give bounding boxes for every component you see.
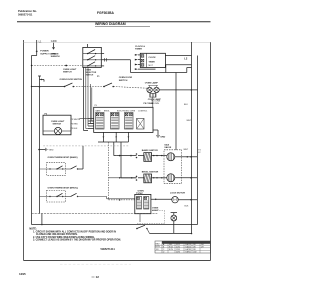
sheet border bottom — [24, 260, 211, 262]
svg-text:POWER: POWER — [40, 51, 49, 53]
clock terminal box — [140, 53, 165, 67]
feeder verticals from selector — [83, 67, 85, 130]
wires arrows to clock box — [138, 54, 140, 56]
svg-text:VALVE: VALVE — [164, 146, 172, 149]
grd tap — [38, 149, 40, 151]
svg-text:NOTE:: NOTE: — [29, 228, 37, 231]
revision table — [155, 241, 211, 253]
svg-text:SHEATH: SHEATH — [51, 55, 60, 58]
wire door line left — [32, 86, 65, 88]
svg-text:5995271411: 5995271411 — [101, 247, 116, 251]
svg-text:WHT: WHT — [184, 149, 189, 151]
svg-text:1. CIRCUIT SHOWN WITH ALL CONT: 1. CIRCUIT SHOWN WITH ALL CONTACTS IN OF… — [33, 231, 116, 234]
wire clock bottom link — [166, 64, 192, 66]
bottom stub 2 — [115, 132, 117, 142]
relay element 1 — [96, 113, 105, 130]
svg-text:OVEN THERMOSTAT (BAKE): OVEN THERMOSTAT (BAKE) — [48, 156, 78, 159]
paper edge shadow — [60, 263, 131, 265]
lamp base — [150, 93, 156, 97]
svg-text:OVEN THERMOSTAT (BROIL): OVEN THERMOSTAT (BROIL) — [48, 186, 79, 189]
svg-text:LOCK MOTOR: LOCK MOTOR — [170, 193, 185, 195]
svg-text:P9: P9 — [95, 105, 97, 107]
wire bake feed — [113, 142, 115, 156]
svg-text:BROIL IGNITOR: BROIL IGNITOR — [142, 172, 159, 174]
svg-text:GAS: GAS — [164, 143, 169, 146]
sheet border top — [24, 42, 211, 44]
svg-text:12: 12 — [96, 275, 100, 279]
svg-text:CLOSED AND UNLOCKED POSITION.: CLOSED AND UNLOCKED POSITION. — [36, 233, 78, 236]
svg-text:BAKE: BAKE — [96, 110, 102, 113]
switch rung 3 — [83, 62, 102, 67]
svg-text:P3 RED: P3 RED — [71, 123, 79, 125]
wire L1 to bus — [32, 55, 37, 57]
svg-text:EA456: EA456 — [186, 246, 191, 249]
svg-text:FGF303BA: FGF303BA — [97, 11, 114, 15]
wire lamp to L2 bus — [159, 89, 197, 91]
wire labels to control — [80, 117, 89, 119]
svg-text:EA789: EA789 — [186, 248, 191, 251]
P6 bus under control — [98, 141, 128, 143]
switch rung 2 — [83, 56, 102, 61]
wires inside light box — [43, 130, 54, 132]
svg-text:BLK: BLK — [185, 206, 189, 208]
chassis ground at control — [153, 129, 158, 131]
bottom bus — [32, 224, 198, 226]
svg-text:SWITCH: SWITCH — [119, 80, 128, 82]
relay element 2 — [111, 113, 120, 130]
svg-text:SWITCH: SWITCH — [85, 75, 93, 77]
L2 bus right — [191, 42, 193, 234]
wire rung3 to left bus (dashed) — [32, 65, 83, 67]
svg-text:BLK: BLK — [184, 104, 188, 106]
node L1 — [36, 40, 38, 56]
svg-text:2. USE 105°C RATED WIRE WHEN R: 2. USE 105°C RATED WIRE WHEN REPLACING W… — [33, 236, 95, 239]
svg-text:CONTROL: CONTROL — [138, 111, 147, 113]
left stub wires — [88, 118, 94, 120]
wire clock to L2 — [165, 54, 191, 56]
wire selector to clock — [101, 59, 130, 61]
svg-text:CLOCK: CLOCK — [149, 57, 157, 59]
svg-text:SWITCH: SWITCH — [63, 71, 72, 73]
oven light box — [43, 115, 71, 135]
svg-text:P3 BLK: P3 BLK — [71, 128, 78, 130]
svg-text:5995271411: 5995271411 — [18, 12, 33, 16]
oven door switch 1 — [64, 86, 66, 88]
svg-text:GRD: GRD — [160, 137, 165, 139]
wire broil feed — [120, 142, 122, 178]
svg-text:TIMER: TIMER — [149, 62, 156, 64]
wire dashed to lamp — [113, 87, 147, 89]
svg-text:1295: 1295 — [19, 272, 26, 276]
door lock switch — [136, 228, 138, 230]
broil circuit wire — [128, 177, 136, 179]
svg-text:WIRING DIAGRAM: WIRING DIAGRAM — [95, 22, 126, 26]
svg-text:BROIL: BROIL — [104, 111, 110, 113]
relay element 4 — [137, 118, 144, 129]
svg-text:GRD: GRD — [49, 150, 54, 152]
svg-text:SWITCH: SWITCH — [53, 124, 62, 126]
page number — [92, 276, 95, 278]
svg-text:EA123: EA123 — [186, 243, 191, 246]
svg-text:NO.: NO. — [156, 249, 160, 251]
svg-text:JLW: JLW — [193, 252, 197, 254]
sheet border right — [210, 42, 212, 261]
stub top — [87, 44, 89, 47]
bake circuit wire — [116, 155, 136, 157]
connector P4 arrows — [135, 54, 138, 56]
electronic oven control box — [94, 107, 153, 132]
oven selector switch box — [83, 47, 102, 67]
oven door switch 2 — [103, 86, 105, 88]
bake stat switch out — [65, 168, 70, 170]
wire tstat to motor — [151, 198, 172, 200]
wire lamp base to control — [152, 97, 154, 107]
wire left vertical A — [38, 75, 41, 77]
switch rung 1 — [83, 50, 102, 55]
terminal tap — [40, 79, 45, 81]
console body separator (dashed) — [43, 145, 128, 147]
svg-text:TIMER: TIMER — [135, 49, 142, 51]
neutral bus right — [197, 56, 199, 225]
svg-text:MOT: MOT — [149, 65, 154, 67]
dashed link — [152, 209, 165, 211]
oven lamp bulbs — [147, 87, 152, 92]
wire jog to bottom bus — [41, 214, 43, 225]
bottom stub 1 — [102, 132, 104, 142]
svg-text:EA901: EA901 — [186, 251, 191, 254]
wire bottom — [147, 229, 149, 234]
svg-text:OVEN LAMP: OVEN LAMP — [145, 82, 159, 85]
sheet border left — [23, 40, 25, 261]
header rule — [17, 21, 211, 23]
right stubs — [101, 53, 104, 55]
wire broil stat to thermostat box — [78, 196, 107, 198]
bottom stub 3 — [127, 132, 129, 142]
svg-text:P3 WHITE: P3 WHITE — [71, 119, 81, 121]
svg-text:0496: 0496 — [176, 252, 180, 254]
L1 bus left — [31, 56, 33, 225]
svg-text:WHT: WHT — [187, 120, 192, 122]
wire light to bus — [173, 221, 175, 233]
svg-text:3. CONNECT LEADS AS SHOWN BY T: 3. CONNECT LEADS AS SHOWN BY THE DIAGRAM… — [33, 239, 121, 242]
relay element 3 — [125, 113, 134, 130]
svg-text:CLOCK &: CLOCK & — [135, 46, 145, 48]
oven light bulb — [54, 127, 61, 134]
svg-text:OVEN DOOR SWITCH: OVEN DOOR SWITCH — [60, 79, 83, 81]
dashed bottom line — [32, 213, 158, 215]
svg-text:BAKE IGNITOR: BAKE IGNITOR — [142, 149, 158, 152]
svg-text:GRD: GRD — [51, 39, 57, 43]
svg-text:BROWN: BROWN — [151, 103, 159, 105]
broil valve coil — [167, 174, 175, 182]
wire lock circuit (dashed) — [108, 142, 110, 200]
bake valve coil — [167, 153, 175, 161]
wire right feeder — [175, 73, 177, 150]
wire dashed — [73, 86, 104, 88]
